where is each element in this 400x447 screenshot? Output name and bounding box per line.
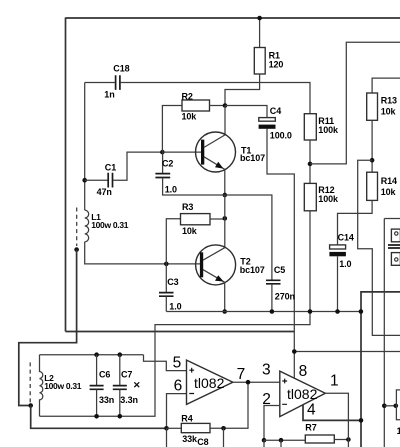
wire bottom supply run to op-amp V+: [66, 331, 295, 333]
wire divider tap to right edge: [310, 42, 400, 164]
svg-text:tl082: tl082: [287, 386, 318, 402]
resistor R1: [254, 48, 265, 75]
svg-text:7: 7: [237, 366, 246, 383]
capacitor C2: [155, 174, 170, 178]
svg-text:C18: C18: [113, 63, 129, 73]
wire C7 top: [119, 355, 121, 386]
wire emitter node to C5: [225, 195, 272, 280]
node R7 output junction: [346, 437, 351, 442]
svg-text:1.0: 1.0: [169, 301, 181, 311]
wire R13 top to right edge: [372, 78, 400, 93]
svg-text:C1: C1: [105, 163, 116, 173]
wire R14 bottom to C14: [338, 200, 373, 244]
node coupling junction: [382, 404, 387, 409]
wire top supply rail: [66, 17, 400, 19]
svg-text:C2: C2: [162, 159, 173, 169]
wire R13 bottom: [371, 120, 373, 172]
wire pin 2: [264, 406, 280, 441]
wire C18 input: [85, 82, 115, 84]
wire pin 2 to R7: [264, 439, 305, 441]
wire C4 negative down to V+ node: [267, 129, 294, 352]
svg-text:bc107: bc107: [240, 153, 265, 163]
wire pin 6: [167, 394, 187, 429]
svg-text:R13: R13: [381, 96, 397, 106]
capacitor C14 negative plate: [329, 252, 346, 256]
capacitor C6: [90, 386, 104, 390]
svg-text:C8: C8: [197, 437, 208, 447]
svg-text:100.0: 100.0: [270, 130, 292, 140]
wire pin 4 to negative rail: [303, 405, 361, 421]
node T1 base junction: [160, 150, 165, 155]
wire R1 top: [259, 18, 261, 48]
wire T1 emitter: [224, 169, 226, 195]
svg-text:5: 5: [173, 354, 182, 371]
inductor L1: [85, 210, 89, 242]
node R1 supply junction: [257, 16, 262, 21]
svg-text:47n: 47n: [97, 187, 112, 197]
node pin 6 feedback junction: [164, 426, 169, 431]
wire R7 junction down: [280, 440, 282, 447]
wire R1 bottom to R2 node: [225, 74, 260, 106]
node R12 ground junction: [308, 309, 313, 314]
wire U1 output to U2 pin 3: [233, 381, 280, 383]
svg-text:1.0: 1.0: [165, 184, 177, 194]
node pin 2 junction: [262, 438, 267, 443]
wire R11 bottom to R12 top: [309, 140, 311, 183]
resistor R14: [367, 172, 378, 200]
coupling screen dashes L2: [29, 362, 31, 403]
wire T1 base: [162, 151, 201, 153]
svg-text:3: 3: [262, 362, 271, 379]
node C6 top junction: [94, 352, 99, 357]
svg-text:1: 1: [397, 426, 400, 436]
node R13/R14 junction: [370, 158, 375, 163]
wire coupling top to right edge: [384, 218, 400, 220]
wire left supply rail: [65, 18, 67, 332]
wire ground rail: [166, 311, 361, 313]
wire to C4 positive: [225, 106, 267, 118]
node T2 emitter on ground rail: [222, 309, 227, 314]
node C1 tap junction: [82, 178, 87, 183]
svg-text:3.3n: 3.3n: [120, 395, 138, 405]
capacitor C4 negative plate: [259, 125, 276, 129]
label C7 select mark: [134, 382, 139, 387]
node C7 top junction: [118, 352, 123, 357]
wire bias tap routed to right edge: [358, 160, 400, 335]
wire C2 top: [162, 152, 164, 173]
transistor T1: [196, 132, 236, 172]
svg-text:6: 6: [174, 378, 183, 395]
node R2/R1/collector junction: [223, 103, 228, 108]
svg-text:C3: C3: [167, 277, 178, 287]
capacitor C14 positive plate: [330, 245, 346, 249]
node T1 emitter junction: [223, 193, 228, 198]
node R7 left junction: [279, 438, 284, 443]
wire C3 bottom: [165, 296, 167, 311]
resistor R3: [181, 214, 211, 225]
svg-text:10k: 10k: [381, 107, 397, 117]
node C14 ground junction: [335, 309, 340, 314]
wire R3 left: [166, 219, 180, 264]
wire V+ supply to right edge: [294, 351, 400, 353]
resistor at right edge: [396, 390, 400, 420]
capacitor C18: [116, 75, 120, 90]
op-amp U1 tl082: [187, 360, 233, 404]
wire C1 to T1 base node: [113, 152, 162, 180]
svg-text:R4: R4: [181, 413, 192, 423]
resistor R2: [182, 100, 210, 111]
wire R2 right: [210, 105, 226, 107]
resistor R4: [181, 423, 210, 432]
svg-text:tl082: tl082: [194, 375, 225, 391]
svg-text:100k: 100k: [318, 125, 339, 135]
wire input column C18/C1/L1: [84, 83, 86, 211]
node screen tap L1: [74, 247, 79, 252]
capacitor C1: [108, 173, 112, 188]
wire pin 2 node down: [263, 440, 265, 447]
wire screen node to AGC line: [31, 406, 167, 429]
svg-text:C5: C5: [274, 265, 285, 275]
svg-text:R3: R3: [182, 202, 193, 212]
wire T2 emitter: [224, 282, 226, 311]
wire pin 6 node down: [166, 428, 168, 447]
wire pin 8: [293, 352, 295, 379]
svg-text:8: 8: [299, 363, 308, 380]
wire C18 to R11 top: [121, 83, 310, 114]
node pin 8 junction: [292, 349, 297, 354]
svg-text:10k: 10k: [182, 112, 198, 122]
wire negative supply rail: [361, 292, 400, 447]
trimmer capacitor at right edge: [388, 229, 400, 265]
node R11/R12 junction: [308, 162, 313, 167]
svg-text:R7: R7: [305, 422, 316, 432]
node R4/C8 junction: [221, 426, 226, 431]
wire R4 left: [167, 427, 182, 429]
wire L1 bottom to T2 base: [85, 242, 201, 264]
svg-text:100k: 100k: [318, 194, 339, 204]
wire output coupling column: [383, 219, 385, 447]
node U1 output junction: [246, 380, 251, 385]
wire tank top: [40, 354, 144, 356]
capacitor C7: [113, 386, 127, 390]
wire C6 bottom: [96, 390, 98, 417]
capacitor C3: [159, 293, 174, 297]
resistor R12: [304, 183, 316, 210]
svg-text:bc107: bc107: [240, 265, 265, 275]
wire C1 left: [85, 179, 108, 181]
svg-text:10k: 10k: [182, 226, 198, 236]
node C5 ground junction: [270, 309, 275, 314]
svg-text:4: 4: [307, 402, 316, 419]
svg-text:33n: 33n: [99, 395, 114, 405]
wire T1 collector: [224, 106, 226, 135]
svg-text:1: 1: [330, 373, 339, 390]
wire R2 left: [162, 106, 182, 153]
svg-text:1.0: 1.0: [339, 259, 351, 269]
wire C7 bottom: [119, 390, 121, 417]
svg-text:100w 0.31: 100w 0.31: [44, 381, 82, 391]
wire C3 top: [165, 264, 167, 293]
svg-text:C7: C7: [121, 370, 132, 380]
svg-text:270n: 270n: [275, 292, 295, 302]
inductor L2: [40, 355, 43, 417]
wire U2 output pin 1: [325, 393, 348, 447]
node screen tap L2: [28, 403, 33, 408]
wire C14 bottom: [337, 256, 339, 311]
node T2 base junction: [164, 262, 169, 267]
transistor T2: [196, 245, 236, 285]
wire coupling to edge resistor: [384, 405, 396, 407]
svg-text:C4: C4: [270, 106, 281, 116]
node edge resistor junction: [394, 404, 399, 409]
coupling screen dashes L1: [76, 208, 78, 247]
svg-text:33k: 33k: [182, 434, 198, 444]
op-amp U2 tl082: [280, 371, 326, 417]
svg-text:10k: 10k: [381, 187, 397, 197]
svg-text:C14: C14: [338, 233, 354, 243]
wire R3 right: [210, 218, 225, 220]
node pin 4 on negative rail: [359, 418, 364, 423]
svg-text:1n: 1n: [104, 89, 114, 99]
node C7 bottom junction: [118, 414, 123, 419]
wire C5 bottom: [271, 284, 273, 312]
wire C6 top: [96, 355, 98, 386]
wire C8 down: [223, 428, 225, 447]
svg-text:R2: R2: [182, 91, 193, 101]
svg-text:100w 0.31: 100w 0.31: [91, 220, 129, 230]
wire R7 right: [334, 439, 348, 441]
node C6 bottom junction: [94, 414, 99, 419]
wire T1 emitter to T2 collector: [224, 195, 226, 247]
capacitor C4 positive plate: [259, 118, 276, 122]
resistor R7: [305, 435, 334, 443]
resistor R13: [367, 93, 378, 120]
wire C2 bottom to emitter node: [163, 178, 225, 195]
wire screen L1 to screen L2: [19, 250, 77, 406]
svg-text:C6: C6: [99, 370, 110, 380]
wire tank top to pin 5: [144, 355, 187, 371]
node ground rail meets negative rail: [359, 309, 364, 314]
svg-text:R14: R14: [381, 176, 397, 186]
node R3 collector junction: [223, 216, 228, 221]
wire R12 bottom to ground and tank return: [40, 211, 311, 416]
resistor R11: [304, 114, 316, 140]
capacitor C5: [266, 280, 281, 284]
wire R4 right to output: [210, 382, 248, 428]
svg-text:120: 120: [269, 59, 284, 69]
